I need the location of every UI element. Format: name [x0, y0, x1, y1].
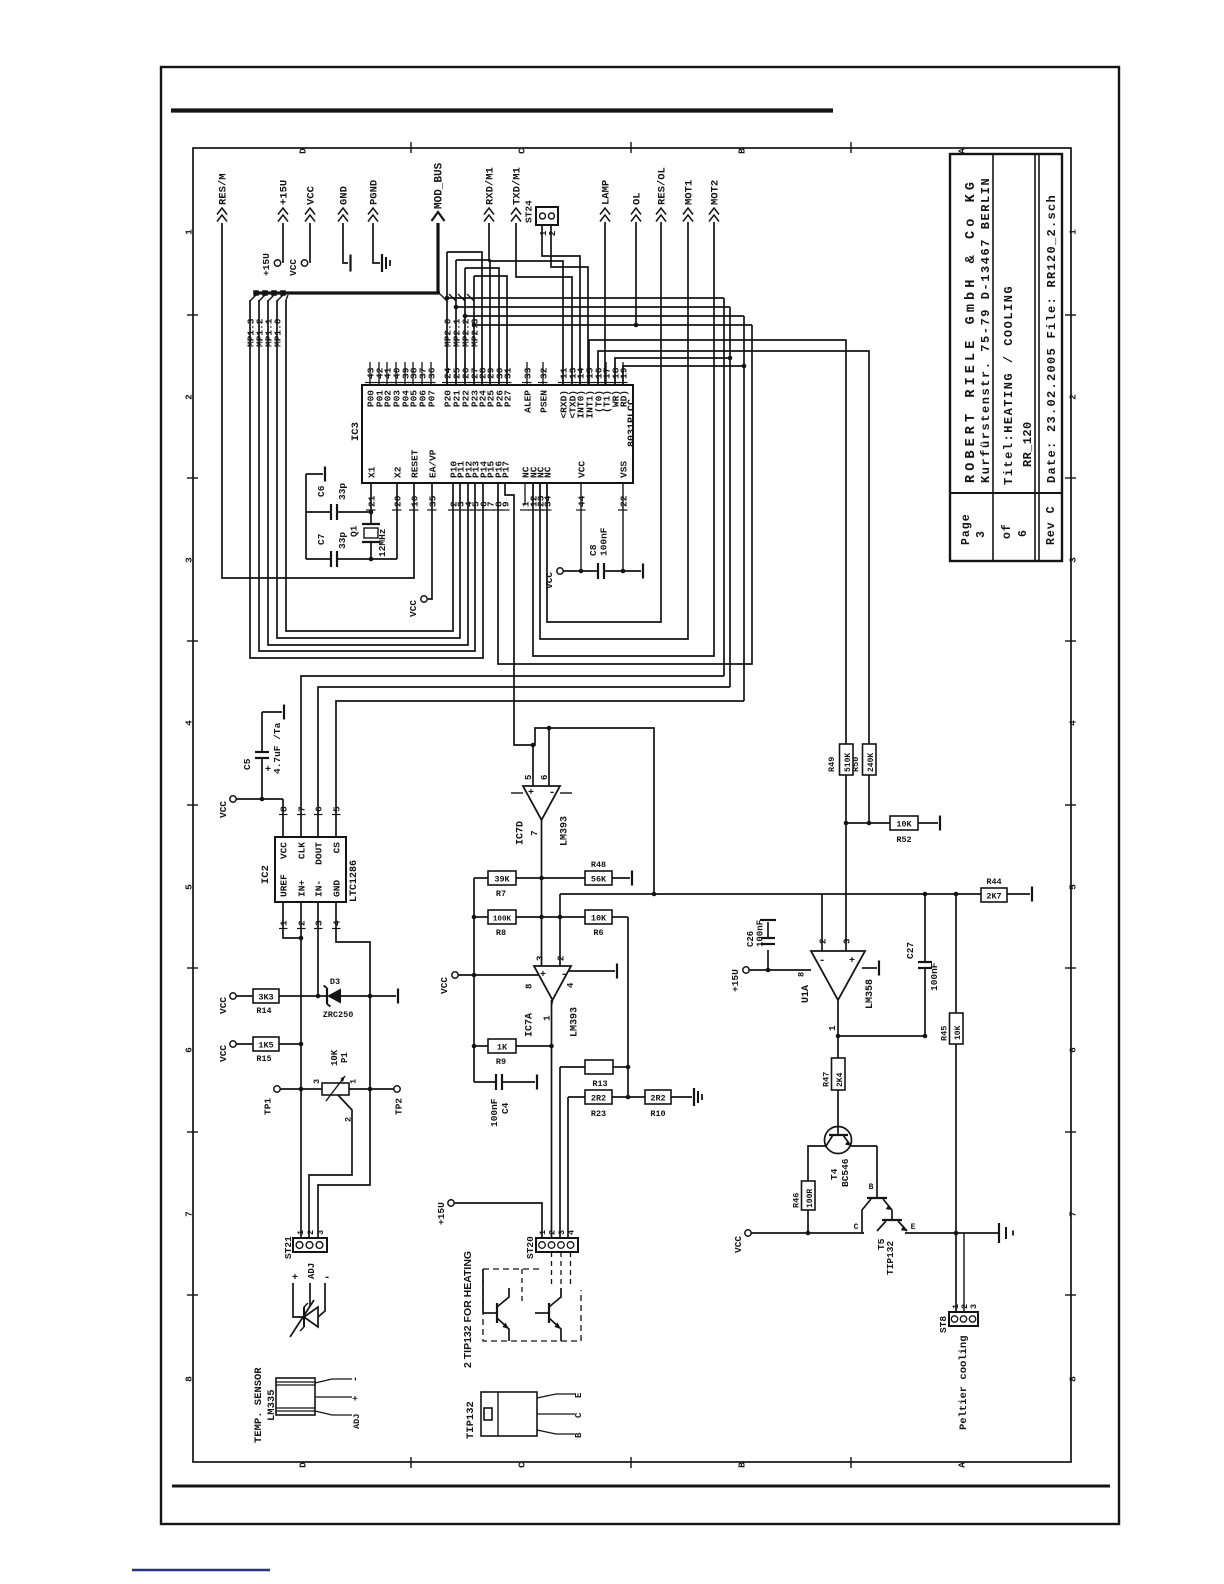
svg-text:1: 1: [538, 1230, 548, 1235]
svg-text:B: B: [737, 1462, 748, 1468]
svg-text:19: 19: [619, 367, 630, 379]
svg-text:ADJ: ADJ: [352, 1414, 362, 1429]
svg-text:VSS: VSS: [619, 461, 630, 478]
svg-text:MP1.0: MP1.0: [273, 318, 284, 347]
svg-text:2 TIP132 FOR HEATING: 2 TIP132 FOR HEATING: [462, 1251, 474, 1368]
svg-text:3K3: 3K3: [258, 993, 273, 1003]
svg-text:3: 3: [314, 920, 325, 926]
svg-text:NC: NC: [543, 466, 554, 478]
svg-text:ST20: ST20: [525, 1236, 536, 1259]
svg-text:39K: 39K: [494, 875, 510, 885]
svg-text:C: C: [517, 148, 528, 154]
svg-text:R13: R13: [592, 1079, 607, 1089]
svg-text:P17: P17: [501, 461, 512, 478]
svg-text:+: +: [265, 765, 271, 776]
svg-text:DOUT: DOUT: [314, 842, 325, 865]
svg-text:RES/M: RES/M: [218, 173, 230, 205]
svg-text:2: 2: [548, 231, 558, 236]
svg-text:Page: Page: [960, 513, 973, 545]
svg-text:of: of: [1001, 523, 1014, 539]
svg-text:6: 6: [184, 1047, 195, 1053]
svg-text:C: C: [517, 1462, 528, 1468]
svg-text:VCC: VCC: [408, 600, 419, 617]
svg-text:34: 34: [543, 495, 554, 507]
svg-text:CLK: CLK: [297, 842, 308, 859]
svg-text:GND: GND: [332, 880, 343, 897]
svg-text:R15: R15: [256, 1054, 271, 1064]
svg-text:3: 3: [184, 557, 195, 563]
svg-text:6: 6: [540, 775, 550, 780]
svg-text:8: 8: [525, 984, 535, 989]
svg-text:6: 6: [1068, 1047, 1079, 1053]
svg-text:4: 4: [184, 720, 195, 726]
svg-text:VCC: VCC: [544, 572, 555, 589]
svg-text:E: E: [574, 1392, 584, 1398]
svg-text:3: 3: [843, 939, 853, 944]
svg-text:+: +: [540, 970, 546, 981]
svg-text:2K7: 2K7: [986, 892, 1001, 902]
svg-text:EA/VP: EA/VP: [428, 449, 439, 478]
svg-text:VCC: VCC: [218, 801, 229, 818]
svg-text:33p: 33p: [337, 483, 348, 500]
svg-text:PGND: PGND: [369, 180, 381, 205]
svg-text:1: 1: [296, 1230, 306, 1235]
svg-text:35: 35: [428, 495, 439, 507]
svg-text:X2: X2: [393, 466, 404, 478]
svg-text:8: 8: [279, 806, 290, 812]
svg-text:1K: 1K: [497, 1043, 508, 1053]
svg-text:Peltier cooling: Peltier cooling: [958, 1335, 970, 1430]
svg-text:+: +: [292, 1273, 298, 1284]
svg-text:100nF: 100nF: [599, 527, 610, 556]
svg-text:VCC: VCC: [733, 1236, 744, 1253]
svg-text:R7: R7: [496, 889, 506, 899]
svg-text:VCC: VCC: [218, 1045, 229, 1062]
svg-text:B: B: [869, 1183, 874, 1192]
svg-text:PSEN: PSEN: [539, 390, 550, 413]
svg-text:+15U: +15U: [436, 1202, 447, 1225]
svg-text:TP1: TP1: [263, 1098, 274, 1115]
svg-text:9: 9: [501, 501, 512, 507]
svg-text:Titel:HEATING / COOLING: Titel:HEATING / COOLING: [1002, 285, 1016, 485]
svg-text:R9: R9: [496, 1057, 506, 1067]
svg-text:-: -: [324, 1272, 331, 1284]
svg-text:MP2.3: MP2.3: [470, 318, 481, 347]
svg-text:7: 7: [529, 830, 540, 836]
svg-text:33p: 33p: [337, 532, 348, 549]
svg-text:Q1: Q1: [349, 525, 360, 537]
svg-text:1: 1: [827, 1025, 838, 1031]
svg-text:R50: R50: [851, 757, 861, 772]
svg-text:1K5: 1K5: [258, 1041, 273, 1051]
svg-text:7: 7: [297, 806, 308, 812]
svg-text:2R2: 2R2: [650, 1094, 665, 1104]
svg-text:T4: T4: [829, 1168, 840, 1180]
svg-text:IC7D: IC7D: [516, 821, 527, 845]
svg-text:OL: OL: [632, 192, 644, 205]
svg-text:10K: 10K: [954, 1025, 963, 1040]
svg-text:100R: 100R: [806, 1189, 815, 1208]
svg-text:2: 2: [297, 920, 308, 926]
svg-text:5: 5: [524, 775, 534, 780]
svg-text:240K: 240K: [867, 753, 876, 772]
svg-text:MOT2: MOT2: [710, 180, 722, 205]
svg-text:R8: R8: [496, 928, 506, 938]
svg-text:3: 3: [969, 1304, 979, 1309]
svg-text:R49: R49: [827, 757, 837, 772]
svg-text:ZRC250: ZRC250: [323, 1010, 354, 1020]
svg-text:100nF: 100nF: [929, 962, 940, 991]
svg-text:ALEP: ALEP: [523, 390, 534, 413]
svg-text:+: +: [351, 1396, 361, 1401]
svg-text:BC546: BC546: [840, 1158, 851, 1187]
svg-text:C27: C27: [905, 942, 916, 959]
svg-text:TXD/M1: TXD/M1: [512, 167, 524, 205]
svg-text:IC2: IC2: [260, 865, 272, 884]
svg-text:C: C: [854, 1223, 859, 1232]
svg-text:RES/OL: RES/OL: [657, 167, 669, 205]
svg-text:1: 1: [349, 1079, 359, 1084]
svg-text:Date: 23.02.2005 File: RR120: Date: 23.02.2005 File: RR120_2.sch: [1045, 194, 1059, 483]
svg-text:A: A: [957, 1462, 968, 1468]
svg-text:GND: GND: [339, 186, 351, 205]
svg-text:B: B: [737, 148, 748, 154]
svg-text:IC7A: IC7A: [525, 1013, 536, 1037]
svg-text:MOT1: MOT1: [684, 180, 696, 205]
svg-text:5: 5: [332, 806, 343, 812]
svg-text:-: -: [351, 1376, 362, 1382]
svg-text:R10: R10: [650, 1109, 665, 1119]
svg-text:RR_120: RR_120: [1021, 421, 1035, 467]
svg-text:1: 1: [542, 1015, 553, 1021]
svg-text:10K: 10K: [330, 1049, 340, 1066]
svg-text:VCC: VCC: [218, 997, 229, 1014]
svg-text:VCC: VCC: [279, 842, 290, 859]
svg-text:4.7uF /Ta: 4.7uF /Ta: [272, 722, 283, 774]
svg-text:32: 32: [539, 367, 550, 379]
svg-text:4: 4: [332, 920, 343, 926]
svg-text:+15U: +15U: [730, 969, 741, 992]
svg-text:1: 1: [1068, 229, 1079, 235]
svg-text:C: C: [574, 1412, 584, 1418]
svg-text:Kurfürstenstr. 75-79 D-13467: Kurfürstenstr. 75-79 D-13467 BERLIN: [979, 177, 993, 483]
svg-text:UREF: UREF: [279, 874, 290, 897]
svg-text:LM393: LM393: [570, 1007, 581, 1037]
svg-text:MOD_BUS: MOD_BUS: [434, 162, 446, 209]
svg-text:TIP132: TIP132: [885, 1240, 896, 1275]
svg-text:+15U: +15U: [261, 253, 272, 276]
svg-text:2: 2: [557, 956, 567, 961]
svg-text:C8: C8: [588, 544, 599, 556]
svg-text:IN-: IN-: [314, 880, 325, 897]
svg-text:-: -: [549, 787, 556, 799]
svg-text:7: 7: [1068, 1211, 1079, 1217]
svg-text:R45: R45: [940, 1026, 950, 1041]
svg-text:LTC1286: LTC1286: [349, 860, 360, 902]
svg-text:56K: 56K: [591, 875, 607, 885]
svg-text:6: 6: [314, 806, 325, 812]
svg-text:ST8: ST8: [938, 1316, 949, 1333]
svg-text:+: +: [849, 956, 855, 967]
svg-text:4: 4: [566, 982, 576, 988]
svg-text:22: 22: [619, 495, 630, 507]
svg-text:12MHz: 12MHz: [377, 528, 388, 557]
svg-text:100K: 100K: [493, 916, 512, 924]
svg-text:C4: C4: [500, 1102, 511, 1114]
svg-text:LM358: LM358: [865, 979, 876, 1009]
svg-text:-: -: [819, 955, 826, 967]
svg-text:Rev C: Rev C: [1045, 505, 1058, 545]
svg-text:RESET: RESET: [410, 449, 421, 478]
svg-text:R46: R46: [792, 1193, 802, 1208]
svg-text:TIP132: TIP132: [465, 1401, 477, 1439]
svg-text:RXD/M1: RXD/M1: [485, 167, 497, 205]
svg-text:R48: R48: [591, 860, 606, 870]
svg-text:P1: P1: [340, 1052, 350, 1063]
svg-text:36: 36: [427, 367, 438, 379]
svg-text:D3: D3: [330, 977, 340, 987]
svg-text:C7: C7: [316, 533, 327, 545]
svg-text:U1A: U1A: [801, 985, 812, 1003]
svg-text:IN+: IN+: [297, 880, 308, 897]
svg-text:2: 2: [819, 939, 829, 944]
svg-text:VCC: VCC: [288, 259, 299, 276]
svg-text:2: 2: [344, 1117, 354, 1122]
svg-text:7: 7: [184, 1211, 195, 1217]
svg-text:+15U: +15U: [279, 180, 291, 205]
svg-text:ST21: ST21: [283, 1236, 294, 1259]
svg-text:8: 8: [184, 1376, 195, 1382]
svg-text:3: 3: [557, 1230, 567, 1235]
svg-text:33: 33: [523, 367, 534, 379]
svg-text:3: 3: [536, 956, 546, 961]
svg-text:R44: R44: [986, 877, 1001, 887]
svg-text:100nF: 100nF: [756, 920, 766, 947]
svg-text:TEMP. SENSOR: TEMP. SENSOR: [253, 1367, 265, 1443]
svg-text:6: 6: [1017, 530, 1030, 537]
svg-text:VCC: VCC: [439, 977, 450, 994]
svg-text:CS: CS: [332, 842, 343, 854]
svg-text:P27: P27: [503, 390, 514, 407]
svg-text:VCC: VCC: [306, 185, 318, 205]
svg-text:3: 3: [1068, 557, 1079, 563]
svg-text:R47: R47: [822, 1072, 832, 1087]
svg-text:2: 2: [306, 1230, 316, 1235]
svg-text:C5: C5: [242, 758, 253, 770]
svg-text:R23: R23: [591, 1109, 606, 1119]
svg-text:+: +: [528, 788, 534, 799]
svg-text:10: 10: [410, 495, 421, 507]
svg-text:E: E: [911, 1223, 916, 1232]
svg-text:B: B: [574, 1432, 584, 1438]
svg-text:LM393: LM393: [560, 816, 571, 846]
svg-text:2K4: 2K4: [836, 1072, 845, 1087]
svg-text:10K: 10K: [591, 914, 607, 924]
svg-text:-: -: [561, 969, 568, 981]
svg-text:3: 3: [312, 1079, 322, 1084]
svg-text:2: 2: [1068, 394, 1079, 400]
svg-text:ROBERT RIELE GmbH & Co KG: ROBERT RIELE GmbH & Co KG: [964, 178, 979, 483]
svg-text:100nF: 100nF: [489, 1098, 500, 1127]
svg-text:C6: C6: [316, 485, 327, 497]
svg-text:IC3: IC3: [350, 422, 362, 441]
svg-text:1: 1: [184, 229, 195, 235]
svg-text:8: 8: [797, 972, 807, 977]
svg-text:31: 31: [503, 367, 514, 379]
svg-text:3: 3: [316, 1230, 326, 1235]
svg-text:44: 44: [577, 495, 588, 507]
svg-text:5: 5: [1068, 884, 1079, 890]
svg-text:4: 4: [1068, 720, 1079, 726]
svg-text:2R2: 2R2: [591, 1094, 606, 1104]
svg-text:VCC: VCC: [577, 461, 588, 478]
svg-text:21: 21: [367, 495, 378, 507]
svg-text:X1: X1: [367, 466, 378, 478]
svg-text:D: D: [298, 1462, 309, 1468]
svg-text:ADJ: ADJ: [307, 1263, 317, 1279]
svg-text:P07: P07: [427, 390, 438, 407]
svg-text:RD): RD): [619, 390, 630, 407]
svg-text:5: 5: [184, 884, 195, 890]
svg-text:D: D: [298, 148, 309, 154]
svg-text:3: 3: [975, 531, 988, 538]
svg-text:LAMP: LAMP: [601, 180, 613, 205]
svg-text:20: 20: [393, 495, 404, 507]
svg-text:ST24: ST24: [524, 200, 535, 223]
svg-text:2: 2: [548, 1230, 558, 1235]
svg-text:R14: R14: [256, 1006, 271, 1016]
svg-text:2: 2: [184, 394, 195, 400]
svg-text:1: 1: [279, 920, 290, 926]
svg-text:R6: R6: [593, 928, 603, 938]
svg-text:C26: C26: [746, 931, 756, 947]
svg-text:10K: 10K: [896, 820, 912, 830]
svg-text:TP2: TP2: [394, 1098, 405, 1115]
svg-text:R52: R52: [896, 835, 911, 845]
svg-text:8: 8: [1068, 1376, 1079, 1382]
